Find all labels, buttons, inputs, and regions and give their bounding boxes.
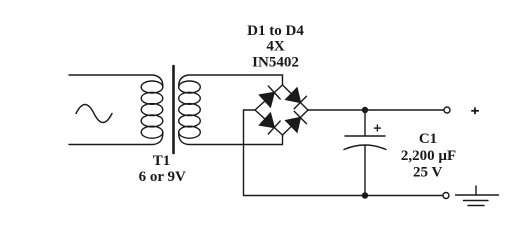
svg-text:C1: C1 <box>419 131 437 147</box>
diode D1 (left to top) <box>255 85 283 110</box>
wire secondary top lead to bridge top <box>179 75 283 87</box>
capacitor C1 top lead <box>364 110 366 136</box>
label capacitor plus <box>374 125 381 132</box>
label output plus <box>471 107 479 114</box>
svg-text:T1: T1 <box>153 153 171 169</box>
wire bridge left vertex down to negative rail <box>244 110 444 196</box>
wire secondary bottom lead to bridge bottom <box>179 132 283 144</box>
svg-text:4X: 4X <box>266 39 285 55</box>
svg-text:6 or 9V: 6 or 9V <box>139 169 186 185</box>
wire primary top lead <box>69 75 163 87</box>
transformer T1 primary winding <box>141 81 163 138</box>
wire primary bottom lead <box>69 132 163 144</box>
AC source sine symbol <box>76 105 112 123</box>
diode D2 (top to right) <box>283 85 309 110</box>
diode D4 (bottom to right) <box>283 110 309 135</box>
junction node top <box>362 107 368 113</box>
svg-text:25 V: 25 V <box>413 164 442 180</box>
transformer T1 secondary winding <box>179 81 201 138</box>
output terminal positive <box>444 107 450 113</box>
transformer core <box>172 66 175 153</box>
junction node bottom <box>362 192 368 198</box>
capacitor C1 bottom lead <box>364 146 366 196</box>
diode D3 (left to bottom) <box>255 110 283 135</box>
output terminal negative <box>443 193 449 199</box>
capacitor C1 top plate <box>345 135 385 137</box>
capacitor C1 curved plate <box>344 145 386 150</box>
svg-text:IN5402: IN5402 <box>252 54 299 70</box>
svg-text:D1 to D4: D1 to D4 <box>247 23 304 39</box>
svg-text:2,200 µF: 2,200 µF <box>401 148 456 164</box>
ground symbol <box>456 186 499 206</box>
wire bridge right vertex to positive rail <box>308 109 444 111</box>
